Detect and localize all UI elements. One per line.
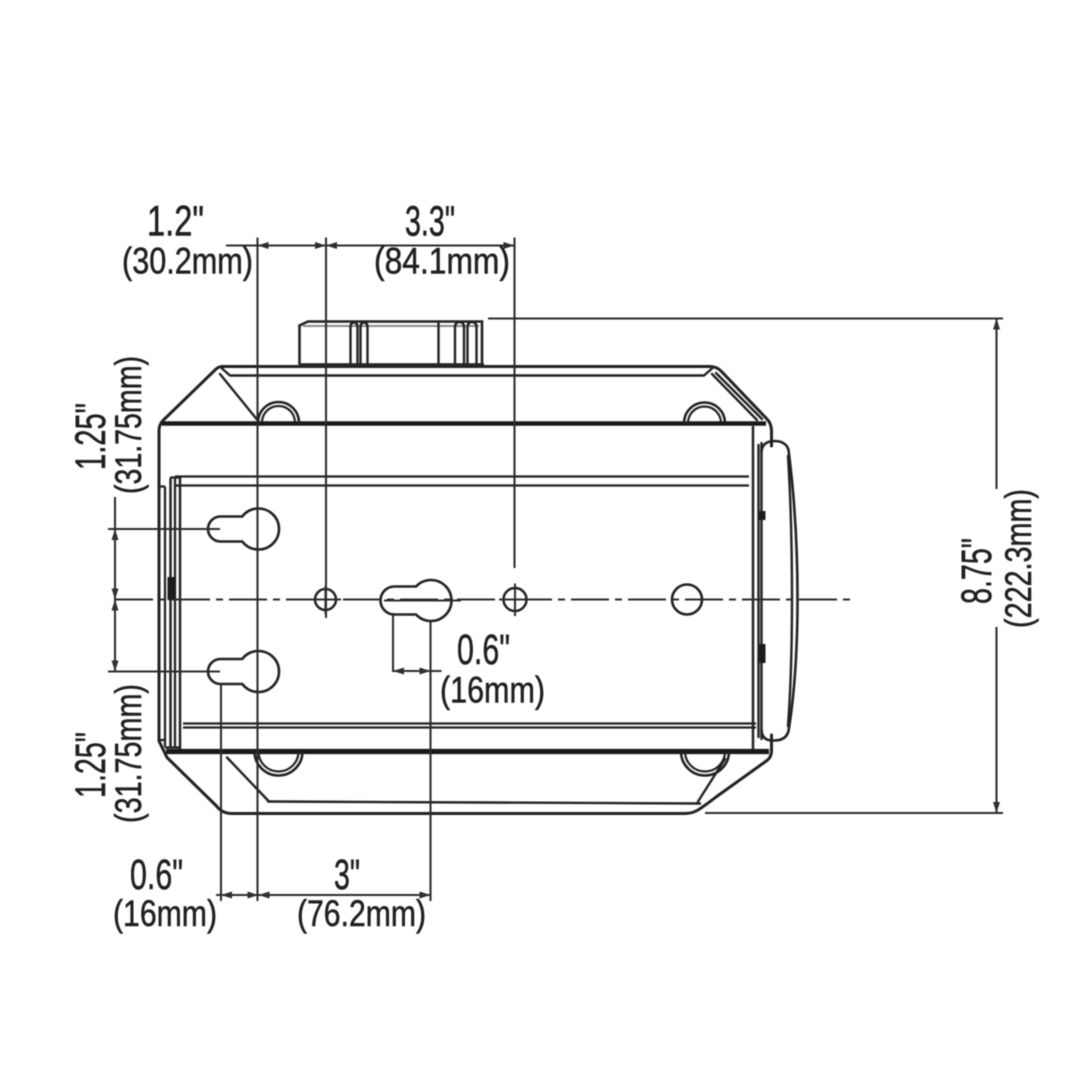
svg-text:3.3": 3.3" — [405, 198, 455, 246]
svg-text:(31.75mm): (31.75mm) — [107, 684, 149, 823]
svg-text:8.75": 8.75" — [953, 538, 1001, 604]
svg-text:1.2": 1.2" — [147, 198, 204, 246]
svg-text:(84.1mm): (84.1mm) — [374, 240, 510, 282]
svg-text:(76.2mm): (76.2mm) — [297, 892, 426, 934]
svg-text:(222.3mm): (222.3mm) — [997, 489, 1039, 628]
svg-text:(31.75mm): (31.75mm) — [107, 356, 149, 494]
svg-text:(16mm): (16mm) — [113, 892, 217, 934]
svg-text:(30.2mm): (30.2mm) — [122, 240, 253, 282]
svg-text:0.6": 0.6" — [457, 626, 510, 674]
svg-text:(16mm): (16mm) — [440, 669, 545, 711]
